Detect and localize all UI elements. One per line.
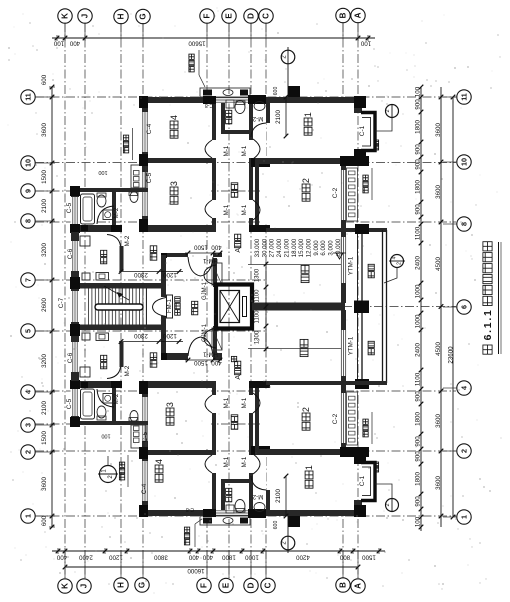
center dividing wall bbox=[252, 303, 345, 311]
svg-text:1500: 1500 bbox=[41, 170, 48, 184]
1500 400 dims at HM-1 doors bbox=[185, 252, 222, 254]
detail circle top-center bbox=[281, 50, 295, 64]
svg-text:15.000: 15.000 bbox=[298, 238, 305, 257]
svg-text:600: 600 bbox=[41, 515, 48, 526]
svg-text:D: D bbox=[247, 13, 256, 19]
svg-text:4200: 4200 bbox=[296, 554, 310, 561]
svg-text:7: 7 bbox=[24, 278, 33, 282]
svg-text:3: 3 bbox=[24, 423, 33, 427]
svg-text:E: E bbox=[225, 13, 234, 19]
elevator shaft bbox=[216, 285, 252, 329]
svg-text:600: 600 bbox=[273, 87, 279, 96]
svg-text:900: 900 bbox=[415, 451, 422, 462]
svg-text:6: 6 bbox=[482, 334, 494, 340]
svg-text:3: 3 bbox=[165, 402, 175, 407]
svg-text:1300: 1300 bbox=[255, 330, 261, 344]
svg-text:2: 2 bbox=[385, 109, 391, 112]
svg-text:A: A bbox=[235, 375, 242, 380]
svg-text:M-1: M-1 bbox=[241, 204, 248, 215]
svg-text:K: K bbox=[61, 13, 70, 19]
svg-text:400: 400 bbox=[211, 359, 222, 366]
svg-text:8: 8 bbox=[24, 219, 33, 223]
AC slab labels bbox=[123, 148, 128, 153]
door FM-1 bbox=[153, 298, 167, 308]
svg-text:A: A bbox=[354, 12, 363, 18]
svg-text:3200: 3200 bbox=[41, 354, 48, 368]
svg-text:C: C bbox=[264, 582, 273, 588]
svg-text:M-1: M-1 bbox=[223, 397, 230, 408]
svg-text:YTM-1: YTM-1 bbox=[348, 336, 355, 355]
svg-text:800: 800 bbox=[339, 554, 350, 561]
svg-text:C-6: C-6 bbox=[67, 352, 74, 363]
svg-text:G: G bbox=[138, 582, 147, 588]
svg-text:1300: 1300 bbox=[255, 268, 261, 282]
stair break line bbox=[104, 286, 129, 300]
grid axis lines bbox=[64, 23, 66, 578]
svg-text:5: 5 bbox=[24, 329, 33, 333]
svg-text:2: 2 bbox=[397, 262, 403, 265]
stair treads bbox=[88, 289, 90, 325]
svg-text:30.000: 30.000 bbox=[261, 238, 268, 257]
svg-text:FM-1: FM-1 bbox=[167, 298, 173, 313]
svg-text:1800: 1800 bbox=[415, 412, 422, 426]
svg-text:11: 11 bbox=[460, 93, 469, 101]
svg-text:900: 900 bbox=[415, 204, 422, 215]
detail circle top-right bbox=[386, 105, 399, 118]
svg-text:27.000: 27.000 bbox=[269, 238, 276, 257]
svg-text:3600: 3600 bbox=[435, 185, 442, 199]
top grid circles bbox=[58, 9, 72, 23]
svg-text:1: 1 bbox=[303, 112, 313, 117]
svg-text:C-5: C-5 bbox=[66, 202, 73, 213]
left dimension line bbox=[51, 87, 53, 527]
room labels upper unit bbox=[170, 130, 178, 138]
svg-text:1000: 1000 bbox=[415, 284, 422, 298]
door GJM-1 upper bbox=[204, 265, 216, 275]
svg-text:HM-1: HM-1 bbox=[203, 351, 218, 357]
svg-text:K: K bbox=[61, 583, 70, 589]
detail circle bottom-right bbox=[386, 499, 399, 512]
connector lines from grid to dims bbox=[64, 23, 66, 38]
svg-text:900: 900 bbox=[415, 391, 422, 402]
svg-text:3600: 3600 bbox=[41, 477, 48, 491]
svg-text:C-1: C-1 bbox=[359, 125, 366, 136]
svg-text:100: 100 bbox=[101, 433, 110, 439]
svg-text:2: 2 bbox=[301, 178, 311, 183]
svg-text:M-2: M-2 bbox=[252, 115, 263, 122]
1300 100 dim column bbox=[265, 262, 267, 351]
detail circle bottom-center bbox=[281, 536, 295, 550]
svg-text:21.000: 21.000 bbox=[283, 238, 290, 257]
detail circle bottom-left bbox=[100, 466, 117, 483]
svg-text:C-6: C-6 bbox=[67, 248, 74, 259]
svg-text:J: J bbox=[80, 584, 89, 588]
svg-text:C-4: C-4 bbox=[141, 483, 148, 494]
svg-text:900: 900 bbox=[415, 159, 422, 170]
svg-text:12.000: 12.000 bbox=[305, 238, 312, 257]
svg-text:9.000: 9.000 bbox=[313, 240, 320, 256]
svg-text:2400: 2400 bbox=[415, 256, 422, 270]
svg-text:C-7: C-7 bbox=[58, 297, 65, 308]
svg-text:M-1: M-1 bbox=[241, 145, 248, 156]
svg-text:3800: 3800 bbox=[154, 554, 168, 561]
svg-text:B: B bbox=[339, 582, 348, 588]
svg-text:2300: 2300 bbox=[134, 332, 148, 339]
svg-text:100: 100 bbox=[415, 516, 422, 527]
level line under elevation stack bbox=[248, 264, 341, 266]
door GJM-1 lower bbox=[204, 328, 216, 338]
svg-text:C-5: C-5 bbox=[146, 172, 153, 183]
svg-text:400: 400 bbox=[56, 554, 67, 561]
svg-text:3600: 3600 bbox=[435, 123, 442, 137]
svg-text:1100: 1100 bbox=[255, 310, 261, 324]
svg-text:15600: 15600 bbox=[188, 40, 206, 47]
svg-text:3200: 3200 bbox=[41, 243, 48, 257]
bottom dimension lines bbox=[52, 550, 385, 552]
svg-text:3600: 3600 bbox=[435, 476, 442, 490]
pipe shafts beside elevator bbox=[213, 258, 217, 287]
right dimension lines bbox=[420, 87, 422, 531]
svg-text:C-8: C-8 bbox=[186, 506, 194, 512]
svg-text:400: 400 bbox=[188, 554, 199, 561]
right grid circles bbox=[457, 90, 471, 104]
svg-text:1200: 1200 bbox=[163, 271, 177, 278]
svg-text:H: H bbox=[117, 582, 126, 588]
svg-text:1: 1 bbox=[482, 310, 494, 316]
svg-text:600: 600 bbox=[273, 521, 279, 530]
svg-text:M-2: M-2 bbox=[124, 365, 131, 376]
svg-text:1800: 1800 bbox=[415, 120, 422, 134]
svg-text:2600: 2600 bbox=[41, 298, 48, 312]
svg-text:C-2: C-2 bbox=[332, 187, 339, 198]
bottom grid circles bbox=[58, 579, 72, 593]
svg-text:1: 1 bbox=[304, 465, 314, 470]
svg-text:A: A bbox=[354, 583, 363, 589]
svg-text:1500: 1500 bbox=[194, 244, 208, 251]
svg-text:C-5: C-5 bbox=[142, 431, 149, 442]
svg-text:E: E bbox=[222, 582, 231, 588]
svg-text:D: D bbox=[247, 582, 256, 588]
svg-text:4500: 4500 bbox=[435, 342, 442, 356]
svg-text:1: 1 bbox=[460, 515, 469, 519]
svg-text:.: . bbox=[482, 318, 494, 321]
svg-text:10: 10 bbox=[460, 158, 469, 166]
svg-text:2: 2 bbox=[24, 450, 33, 454]
svg-text:M-1: M-1 bbox=[223, 204, 230, 215]
svg-text:4: 4 bbox=[24, 390, 33, 394]
svg-text:1500: 1500 bbox=[194, 359, 208, 366]
svg-text:2400: 2400 bbox=[415, 343, 422, 357]
svg-text:±0.000: ±0.000 bbox=[335, 238, 342, 257]
svg-text:C-4: C-4 bbox=[146, 123, 153, 134]
svg-text:10: 10 bbox=[24, 159, 33, 167]
room labels lower unit bbox=[166, 417, 174, 425]
svg-text:M-2: M-2 bbox=[113, 393, 120, 404]
svg-text:2400: 2400 bbox=[79, 554, 93, 561]
svg-text:M-2: M-2 bbox=[124, 235, 131, 246]
svg-text:HM-1: HM-1 bbox=[203, 257, 218, 263]
svg-text:400: 400 bbox=[69, 40, 80, 47]
lower apartment unit geometry (mirrored) bbox=[70, 310, 387, 527]
svg-text:4: 4 bbox=[460, 386, 469, 390]
svg-text:F: F bbox=[203, 13, 212, 18]
svg-text:1500: 1500 bbox=[362, 554, 376, 561]
svg-text:6: 6 bbox=[460, 305, 469, 309]
svg-text:9: 9 bbox=[24, 189, 33, 193]
svg-text:33.000: 33.000 bbox=[254, 238, 261, 257]
svg-text:24.000: 24.000 bbox=[276, 238, 283, 257]
svg-text:4: 4 bbox=[392, 256, 398, 259]
upper apartment unit geometry bbox=[70, 86, 387, 303]
top dimension line bbox=[52, 37, 375, 39]
svg-text:F: F bbox=[200, 583, 209, 588]
svg-text:M-1: M-1 bbox=[223, 456, 230, 467]
svg-text:GJM-1: GJM-1 bbox=[202, 323, 208, 342]
fire hydrant box bbox=[167, 295, 173, 318]
svg-text:100: 100 bbox=[98, 169, 107, 175]
svg-text:900: 900 bbox=[415, 496, 422, 507]
svg-text:C: C bbox=[262, 13, 271, 19]
svg-text:2100: 2100 bbox=[275, 489, 282, 503]
svg-text:2100: 2100 bbox=[41, 199, 48, 213]
figure title bbox=[483, 345, 492, 354]
svg-text:1: 1 bbox=[482, 322, 494, 328]
stair well walls bbox=[71, 283, 166, 289]
svg-text:2100: 2100 bbox=[275, 110, 282, 124]
svg-text:4500: 4500 bbox=[435, 257, 442, 271]
svg-text:M-2: M-2 bbox=[252, 493, 263, 500]
svg-text:C-8: C-8 bbox=[205, 102, 213, 108]
svg-text:11: 11 bbox=[24, 93, 33, 101]
detail circle right-middle bbox=[391, 255, 404, 268]
svg-text:J: J bbox=[81, 14, 90, 18]
svg-text:100: 100 bbox=[360, 40, 371, 47]
left grid circles bbox=[21, 90, 35, 104]
front room walls bbox=[161, 255, 166, 358]
svg-text:H: H bbox=[117, 13, 126, 19]
svg-text:.: . bbox=[482, 330, 494, 333]
svg-text:100: 100 bbox=[415, 86, 422, 97]
svg-text:YTM-1: YTM-1 bbox=[348, 256, 355, 275]
balcony outer rail bbox=[382, 230, 384, 383]
svg-text:2: 2 bbox=[385, 503, 391, 506]
svg-text:C-1: C-1 bbox=[359, 475, 366, 486]
svg-text:4: 4 bbox=[169, 115, 179, 120]
core labels bbox=[192, 309, 198, 315]
door HM-1 lower bbox=[188, 337, 201, 356]
2300 1200 dims at dining bbox=[119, 271, 183, 273]
door HM-1 upper bbox=[188, 257, 201, 276]
svg-text:M-1: M-1 bbox=[241, 456, 248, 467]
svg-text:900: 900 bbox=[415, 436, 422, 447]
svg-text:1000: 1000 bbox=[415, 314, 422, 328]
svg-text:A: A bbox=[235, 248, 242, 253]
svg-text:400: 400 bbox=[211, 244, 222, 251]
stair handrail bbox=[95, 304, 143, 310]
svg-text:M-2: M-2 bbox=[113, 207, 120, 218]
svg-text:GJM-1: GJM-1 bbox=[202, 281, 208, 300]
svg-text:C-5: C-5 bbox=[66, 398, 73, 409]
svg-text:B: B bbox=[339, 12, 348, 18]
svg-text:M-1: M-1 bbox=[241, 397, 248, 408]
svg-text:900: 900 bbox=[415, 99, 422, 110]
svg-text:3600: 3600 bbox=[435, 414, 442, 428]
svg-text:1000: 1000 bbox=[245, 554, 259, 561]
svg-text:23600: 23600 bbox=[448, 346, 455, 364]
svg-text:6.000: 6.000 bbox=[320, 240, 327, 256]
svg-text:1100: 1100 bbox=[415, 372, 422, 386]
svg-text:1100: 1100 bbox=[415, 226, 422, 240]
svg-text:18.000: 18.000 bbox=[291, 238, 298, 257]
svg-text:600: 600 bbox=[41, 74, 48, 85]
svg-text:1: 1 bbox=[24, 514, 33, 518]
svg-text:1800: 1800 bbox=[415, 472, 422, 486]
svg-text:2: 2 bbox=[460, 449, 469, 453]
svg-text:4: 4 bbox=[154, 459, 164, 464]
svg-text:1100: 1100 bbox=[255, 289, 261, 303]
svg-text:C-2: C-2 bbox=[332, 413, 339, 424]
svg-text:900: 900 bbox=[415, 144, 422, 155]
2100 dim inside bedroom1 bbox=[285, 97, 287, 136]
svg-text:16000: 16000 bbox=[187, 567, 205, 574]
svg-text:1800: 1800 bbox=[415, 180, 422, 194]
svg-text:2: 2 bbox=[301, 407, 311, 412]
svg-text:3600: 3600 bbox=[41, 123, 48, 137]
svg-text:G: G bbox=[139, 13, 148, 19]
svg-text:M-1: M-1 bbox=[223, 145, 230, 156]
svg-text:400: 400 bbox=[202, 554, 213, 561]
svg-text:2100: 2100 bbox=[41, 401, 48, 415]
svg-text:1200: 1200 bbox=[163, 332, 177, 339]
svg-text:1500: 1500 bbox=[41, 431, 48, 445]
